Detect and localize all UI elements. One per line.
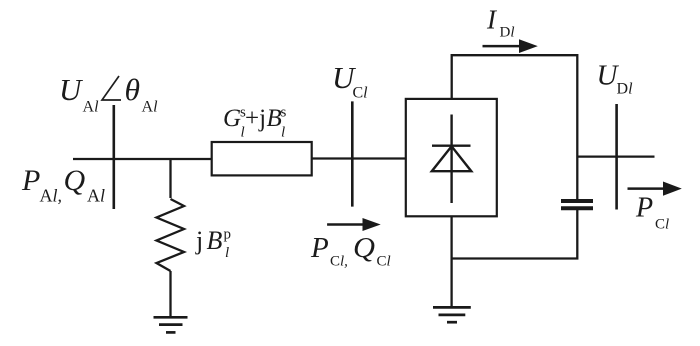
- wire shunt branch top: [169, 159, 171, 198]
- wire shunt branch bottom: [169, 271, 171, 318]
- svg-text:B: B: [207, 226, 223, 255]
- svg-text:Al: Al: [83, 99, 100, 116]
- wire box to converter: [312, 157, 406, 159]
- wire converter top + top horizontal + right vertical: [452, 55, 578, 199]
- resistor box G+jB: [212, 142, 312, 175]
- ground left: [154, 317, 188, 332]
- svg-text:Cl: Cl: [353, 85, 369, 102]
- label U_Al angle theta_Al: [59, 72, 158, 116]
- ground right: [433, 307, 471, 322]
- svg-text:Cl,: Cl,: [330, 254, 348, 270]
- diode D1 cathode bar: [432, 144, 471, 146]
- svg-text:Cl: Cl: [377, 254, 391, 270]
- wire converter bottom to ground: [450, 216, 452, 306]
- wire main left horizontal: [73, 158, 213, 160]
- capacitor C bottom plate: [561, 206, 593, 210]
- svg-text:P: P: [635, 193, 653, 224]
- arrow P_Cl right: [628, 182, 682, 196]
- svg-text:Dl: Dl: [617, 80, 634, 97]
- resistor jBlp zigzag: [157, 199, 185, 271]
- svg-text:p: p: [224, 227, 232, 243]
- bus C (U_Cl bus): [351, 101, 354, 206]
- capacitor C top plate: [561, 199, 593, 203]
- svg-text:j: j: [195, 226, 203, 255]
- svg-text:Cl: Cl: [655, 217, 669, 233]
- bus A (left bus): [113, 105, 116, 209]
- svg-text:Al,: Al,: [40, 186, 63, 206]
- svg-text:Dl: Dl: [500, 24, 515, 40]
- label P_Al Q_Al: [21, 164, 105, 206]
- svg-text:s: s: [281, 105, 287, 121]
- svg-text:l: l: [281, 125, 285, 141]
- wire right horizontal: [577, 155, 654, 157]
- wire below capacitor + bottom horizontal: [452, 210, 578, 259]
- label I_Dl: [486, 5, 515, 41]
- bus D (U_Dl bus): [615, 104, 618, 210]
- diode D1 vertical lead: [450, 115, 452, 204]
- arrow P_Cl Q_Cl: [327, 218, 381, 231]
- label G_l^s + jB_l^s: [223, 105, 287, 141]
- svg-text:G: G: [223, 105, 241, 132]
- label U_Dl: [597, 59, 634, 97]
- svg-text:P: P: [21, 164, 40, 197]
- svg-text:Q: Q: [64, 164, 86, 197]
- svg-text:θ: θ: [125, 72, 141, 107]
- svg-text:B: B: [267, 105, 282, 132]
- label U_Cl: [332, 60, 368, 101]
- svg-text:Q: Q: [353, 232, 375, 264]
- label P_Cl right: [635, 193, 669, 233]
- label P_Cl Q_Cl: [310, 232, 391, 270]
- label jB_l^p: [195, 226, 231, 261]
- svg-text:U: U: [59, 72, 84, 107]
- diode D1 triangle: [432, 146, 472, 171]
- svg-text:P: P: [310, 232, 329, 264]
- svg-text:l: l: [225, 245, 229, 261]
- arrow I_Dl: [483, 39, 538, 53]
- svg-text:+j: +j: [245, 105, 266, 132]
- svg-text:Al: Al: [87, 186, 105, 206]
- svg-text:Al: Al: [142, 99, 159, 116]
- converter box U1: [406, 99, 497, 216]
